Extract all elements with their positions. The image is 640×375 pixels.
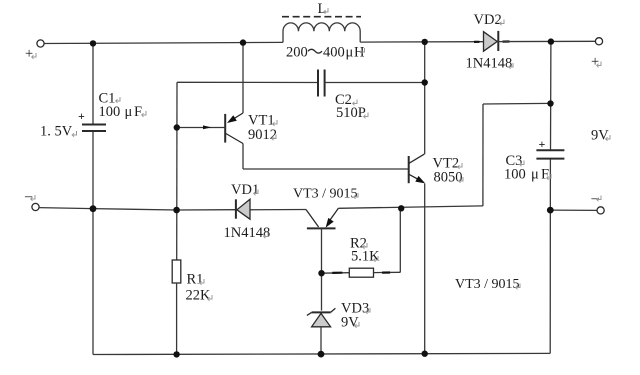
inductor L dashed core line — [282, 16, 361, 18]
node output minus junction — [547, 207, 554, 214]
svg-text:VD1: VD1 — [231, 182, 259, 198]
terminal input plus — [37, 40, 44, 47]
svg-text:VT3 / 9015: VT3 / 9015 — [455, 277, 520, 292]
svg-text:F: F — [541, 167, 549, 183]
svg-text:1. 5V: 1. 5V — [40, 124, 73, 140]
wire minus rail to VD1 — [93, 209, 236, 210]
wire VT1 collector vertical — [242, 144, 244, 170]
node rail VD3 junction — [318, 351, 325, 358]
wire R2 right lead — [374, 271, 401, 273]
transistor VT2 (NPN 8050) — [409, 154, 426, 183]
svg-text:R1: R1 — [187, 272, 204, 288]
wire feedback top horizontal — [483, 102, 551, 105]
wire VT1 collector to VT2 base — [243, 168, 409, 170]
node top rail VT1 emitter tap — [240, 39, 246, 45]
svg-text:200: 200 — [286, 45, 308, 61]
diode VD1 body — [236, 199, 250, 219]
wire top rail middle — [360, 41, 483, 43]
svg-text:510P: 510P — [336, 105, 366, 121]
svg-text:–: – — [24, 189, 33, 205]
node input minus junction — [90, 205, 97, 212]
svg-text:9V: 9V — [341, 315, 359, 331]
wire C1 branch vertical — [92, 43, 94, 354]
svg-text:+: + — [539, 137, 546, 151]
capacitor C1 plates — [82, 125, 106, 132]
node R1 top junction — [173, 207, 180, 214]
svg-text:+: + — [591, 54, 599, 70]
terminal input minus — [32, 203, 39, 210]
resistor R1 — [172, 260, 181, 283]
stub VD2 anode lead — [474, 41, 480, 43]
svg-text:+: + — [25, 46, 33, 62]
resistor R2 — [349, 268, 373, 277]
svg-text:VT3 / 9015: VT3 / 9015 — [293, 187, 358, 202]
wire VT1 base lead — [177, 127, 225, 129]
wire R1 bottom — [176, 283, 178, 354]
svg-text:100: 100 — [99, 104, 121, 120]
wire C2 right segment — [325, 82, 425, 84]
node R2 left junction — [318, 270, 324, 276]
svg-text:1N4148: 1N4148 — [466, 56, 513, 72]
terminal output minus — [597, 207, 604, 214]
svg-text:1N4148: 1N4148 — [224, 225, 271, 241]
node rail VT2 emitter junction — [422, 351, 428, 357]
svg-text:μ: μ — [125, 104, 133, 120]
wire VT3 emitter to right — [338, 206, 483, 208]
svg-text:L: L — [318, 1, 327, 17]
wire VT3 collector vertical — [321, 228, 323, 310]
wire output minus lead — [550, 209, 597, 211]
wire bottom rail — [93, 353, 550, 354]
wire input minus lead — [39, 208, 93, 209]
dash on R2 right lead — [382, 271, 390, 273]
wire VT2 collector vertical — [424, 42, 426, 154]
capacitor C3 plates — [536, 150, 564, 158]
wire VT1 emitter vertical — [242, 43, 244, 113]
svg-text:VD2: VD2 — [474, 12, 502, 28]
wire R2 left lead — [322, 272, 350, 275]
node VT1 base junction — [174, 124, 180, 130]
capacitor C2 plates — [318, 70, 325, 97]
wire C2 network vertical — [176, 82, 178, 260]
node top rail C1 tap — [90, 40, 96, 46]
arrow on VT1 base wire — [203, 125, 212, 129]
wire output node vertical — [549, 42, 552, 354]
zener diode VD3 — [307, 308, 336, 327]
node R2 emitter junction — [398, 205, 404, 211]
node C2 right junction — [422, 79, 428, 85]
transistor VT1 (PNP 9012) — [225, 113, 243, 144]
svg-text:μ: μ — [531, 167, 539, 183]
svg-text:F: F — [134, 104, 142, 120]
inductor L coil — [283, 23, 360, 43]
node rail R1 junction — [173, 351, 179, 357]
wire top rail right — [498, 40, 596, 42]
node feedback top junction — [547, 100, 553, 106]
svg-text:8050: 8050 — [434, 170, 463, 186]
dash on R2 left lead — [332, 272, 342, 274]
tilde in L value — [308, 49, 322, 53]
svg-text:+: + — [78, 109, 85, 123]
wire VT2 emitter vertical — [424, 184, 426, 354]
return marks after labels — [31, 8, 610, 328]
diode VD2 body — [484, 31, 499, 51]
node top rail output tap — [548, 38, 554, 44]
wire R2 to emitter node vertical — [399, 207, 401, 272]
wire top rail left — [44, 42, 283, 43]
node top rail VT2 collector tap — [422, 39, 428, 45]
wire VD1 to VT3 base — [250, 209, 306, 211]
svg-text:9012: 9012 — [248, 127, 277, 143]
svg-text:9V: 9V — [591, 128, 609, 144]
stub VD2 cathode lead — [503, 40, 510, 42]
terminal output plus — [595, 38, 602, 45]
junction node dots — [90, 38, 555, 357]
svg-text:μ: μ — [346, 45, 354, 61]
transistor VT3 (PNP 9015) — [306, 208, 338, 228]
svg-text:100: 100 — [504, 167, 526, 183]
wire VD3 anode to rail — [320, 327, 322, 354]
wire C2 left segment — [177, 81, 318, 83]
svg-text:22K: 22K — [186, 288, 212, 304]
wire feedback vertical — [482, 104, 484, 206]
svg-text:400: 400 — [323, 45, 345, 61]
svg-text:5.1K: 5.1K — [351, 249, 380, 265]
